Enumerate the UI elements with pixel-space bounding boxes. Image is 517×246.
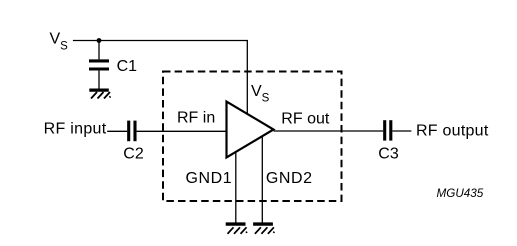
ground under C1: [89, 90, 110, 98]
capacitor C1: [89, 61, 109, 69]
wire C3 to RF output: [392, 130, 411, 132]
ground GND2: [253, 224, 274, 234]
wire C1 to ground: [98, 71, 100, 89]
svg-text:C1: C1: [117, 58, 138, 75]
svg-text:RF input: RF input: [44, 121, 107, 138]
svg-text:GND2: GND2: [266, 170, 313, 187]
svg-text:C3: C3: [378, 145, 399, 162]
svg-text:RF out: RF out: [281, 110, 330, 127]
amplifier module boundary (dashed box): [163, 72, 342, 202]
svg-text:RF in: RF in: [177, 110, 215, 127]
capacitor C3: [385, 120, 391, 140]
wire GND2: [261, 137, 263, 223]
op-amp U1 amplifier triangle: [227, 102, 274, 158]
svg-text:GND1: GND1: [186, 170, 233, 187]
capacitor C2: [129, 121, 135, 142]
svg-text:MGU435: MGU435: [437, 187, 484, 200]
wire supply rail: [73, 40, 248, 42]
wire amplifier output to C3: [274, 130, 384, 132]
wire RF input to C2: [107, 130, 127, 132]
svg-text:C2: C2: [123, 145, 144, 162]
wire junction to C1: [98, 41, 100, 60]
wire supply drop into amplifier: [246, 41, 248, 115]
wire GND1: [235, 152, 237, 223]
svg-text:RF output: RF output: [416, 122, 489, 139]
wire C2 to amplifier input: [137, 130, 227, 132]
ground GND1: [226, 224, 247, 234]
node junction dot: [97, 38, 102, 43]
